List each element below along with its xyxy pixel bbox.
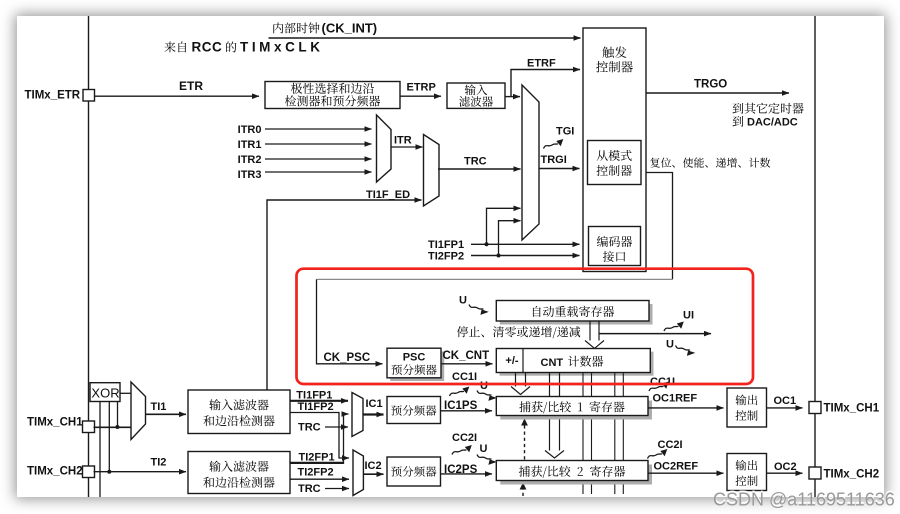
block output-control-1 输出控制 (727, 388, 767, 427)
svg-text:TIMx_ETR: TIMx_ETR (25, 90, 81, 102)
node TIMx_CH1 out pad (809, 402, 821, 414)
mux IC2-select (353, 450, 363, 496)
node junction TI2FP2 (497, 254, 501, 258)
wire XOR input taps (99, 402, 101, 498)
block output-control-2 输出控制 (727, 454, 767, 491)
svg-text:IC2: IC2 (365, 460, 382, 472)
block auto-reload-register 自动重载寄存器 (500, 304, 653, 325)
svg-text:TRC: TRC (464, 156, 487, 168)
wire IC2 (363, 473, 383, 475)
svg-text:TIMx_CH2: TIMx_CH2 (27, 466, 83, 478)
wire dashed compare feedback capture1 (524, 424, 526, 460)
svg-text:OC1: OC1 (774, 395, 797, 407)
block input-filter-edge-detector-1 输入滤波器和边沿检测器 (188, 390, 290, 434)
wire TI2 (94, 471, 187, 473)
mux ITR-select (377, 115, 392, 182)
svg-text:TI1: TI1 (151, 401, 167, 413)
svg-text:TI2FP2: TI2FP2 (298, 467, 334, 479)
svg-text:TI1FP2: TI1FP2 (298, 401, 334, 413)
wire CH1 to mux (94, 426, 132, 428)
svg-text:TI2: TI2 (151, 456, 167, 468)
svg-text:TIMx_CH2: TIMx_CH2 (824, 469, 880, 481)
wire hollow lines counter to lower channels A (583, 373, 592, 495)
mux TRC-select (424, 135, 440, 207)
svg-text:ITR1: ITR1 (238, 139, 262, 151)
node junction CH2 tap (107, 470, 111, 474)
node 到DAC/ADC label (733, 116, 744, 127)
wire filter to trigger mux (505, 96, 520, 98)
block PSC prescaler PSC预分频器 (390, 351, 444, 381)
block trigger-controller 触发控制器 (583, 28, 646, 272)
mux IC1-select (352, 393, 363, 437)
wire TI1F_ED (267, 200, 422, 390)
svg-text:IC1: IC1 (366, 398, 383, 410)
wire TRGO (646, 92, 789, 94)
wire OC2 (767, 472, 803, 474)
svg-text:TI1F_ED: TI1F_ED (366, 189, 410, 201)
svg-text:CNT: CNT (541, 357, 564, 369)
svg-text:CC2I: CC2I (658, 439, 683, 451)
wire hollow lines counter to lower channels B (615, 373, 624, 495)
node TIMx_CH2 pad (83, 466, 95, 478)
svg-text:OC2REF: OC2REF (654, 461, 699, 473)
svg-text:TI1FP1: TI1FP1 (428, 239, 464, 251)
wire slave-mode to prescaler clock routing (646, 173, 673, 280)
block CNT counter CNT计数器 (500, 352, 654, 376)
wire TRC to trigger mux (438, 168, 521, 170)
wire UI update event (599, 333, 711, 335)
node 停止清零或递增递减 label (457, 326, 468, 337)
wire right-rail (814, 16, 816, 497)
svg-text:ETRF: ETRF (527, 58, 556, 70)
wire OC1 (767, 407, 803, 409)
wire ITR (391, 146, 423, 148)
svg-text:ITR2: ITR2 (238, 154, 262, 166)
svg-text:OC1REF: OC1REF (653, 393, 698, 405)
block XOR (90, 383, 120, 402)
svg-text:TIMx_CH1: TIMx_CH1 (824, 403, 880, 415)
node TIMx_CH2 out pad (809, 467, 821, 479)
svg-text:ITR0: ITR0 (238, 124, 262, 136)
svg-text:ETRP: ETRP (407, 82, 436, 94)
node junction CH1 tap (115, 425, 119, 429)
svg-text:U: U (480, 380, 488, 392)
svg-text:+/-: +/- (505, 355, 518, 367)
wire IC1 (363, 413, 384, 415)
block capture-compare-2 捕获/比较2寄存器 (500, 465, 652, 485)
wire CK_INT to trigger controller (269, 37, 581, 39)
block encoder-interface 编码器接口 (589, 227, 641, 266)
wire hollow arrow counter to capture2 (545, 373, 564, 459)
block slave-mode-controller 从模式控制器 (588, 141, 642, 185)
wire ETRF (511, 70, 580, 97)
svg-text:CSDN @a1169511636: CSDN @a1169511636 (713, 490, 895, 510)
svg-text:TRGO: TRGO (694, 79, 727, 91)
svg-text:U: U (480, 443, 488, 455)
svg-text:TRGI: TRGI (541, 154, 567, 166)
wire TI2FP2 riser to trigger mux (499, 221, 521, 256)
wire left-rail (88, 16, 90, 497)
svg-text:(CK_INT): (CK_INT) (322, 21, 378, 36)
svg-text:ETR: ETR (179, 79, 203, 93)
svg-text:TGI: TGI (556, 126, 574, 138)
svg-text:ITR3: ITR3 (238, 169, 262, 181)
wire TI1FP1 riser to trigger mux (487, 208, 521, 244)
svg-text:RCC: RCC (192, 40, 223, 55)
block input-filter 输入滤波器 (447, 83, 505, 108)
node 复位使能递增计数 label (650, 158, 660, 168)
svg-text:CC2I: CC2I (452, 432, 477, 444)
node junction TI1FP1 (485, 242, 489, 246)
wire TRGI (539, 168, 580, 170)
svg-text:TIMxCLK: TIMxCLK (240, 40, 320, 55)
svg-text:ITR: ITR (394, 135, 412, 147)
svg-text:TI2FP2: TI2FP2 (428, 251, 464, 263)
wire XOR out (120, 392, 131, 394)
wire dashed compare feedback capture2 (522, 488, 524, 496)
node red highlight box time-base unit (297, 269, 754, 384)
wire hollow arrow auto-reload to counter (585, 321, 604, 348)
svg-text:OC2: OC2 (774, 461, 797, 473)
node 来自 RCC 的 TIMxCLK label (164, 41, 175, 52)
mux TI1-select (131, 382, 146, 440)
node 到其它定时器 label (733, 103, 744, 114)
svg-text:DAC/ADC: DAC/ADC (747, 117, 798, 129)
block prescaler-2 预分频器 (387, 457, 441, 486)
svg-text:CC1I: CC1I (452, 371, 477, 383)
svg-text:UI: UI (683, 310, 694, 322)
wire CK_CNT (441, 363, 493, 365)
node watermark CSDN (713, 488, 895, 508)
wire TI1 (146, 413, 187, 415)
block capture-compare-1 捕获/比较1寄存器 (500, 401, 652, 420)
svg-text:CK_CNT: CK_CNT (443, 350, 490, 362)
svg-text:PSC: PSC (403, 352, 426, 364)
node TIMx_CH1 pad (83, 421, 95, 433)
svg-text:TRC: TRC (298, 422, 321, 434)
svg-text:U: U (459, 295, 467, 307)
mux trigger-input (522, 85, 539, 240)
block prescaler-1 预分频器 (387, 397, 441, 424)
svg-text:TRC: TRC (298, 483, 321, 495)
wire ETR (95, 95, 260, 97)
wire ETRP (400, 95, 441, 97)
svg-text:CK_PSC: CK_PSC (324, 352, 371, 364)
block polarity-selection 极性选择和边沿检测器和预分频器 (265, 82, 400, 109)
block input-filter-edge-detector-2 输入滤波器和边沿检测器 (188, 452, 290, 494)
wire hollow arrow counter to capture1 (511, 373, 530, 395)
svg-text:U: U (666, 339, 674, 351)
node TIMx_ETR pad (83, 90, 95, 102)
node 内部时钟 CK_INT label (273, 22, 283, 33)
svg-text:TI2FP1: TI2FP1 (299, 452, 335, 464)
svg-text:TIMx_CH1: TIMx_CH1 (27, 417, 83, 429)
svg-text:XOR: XOR (91, 386, 119, 401)
